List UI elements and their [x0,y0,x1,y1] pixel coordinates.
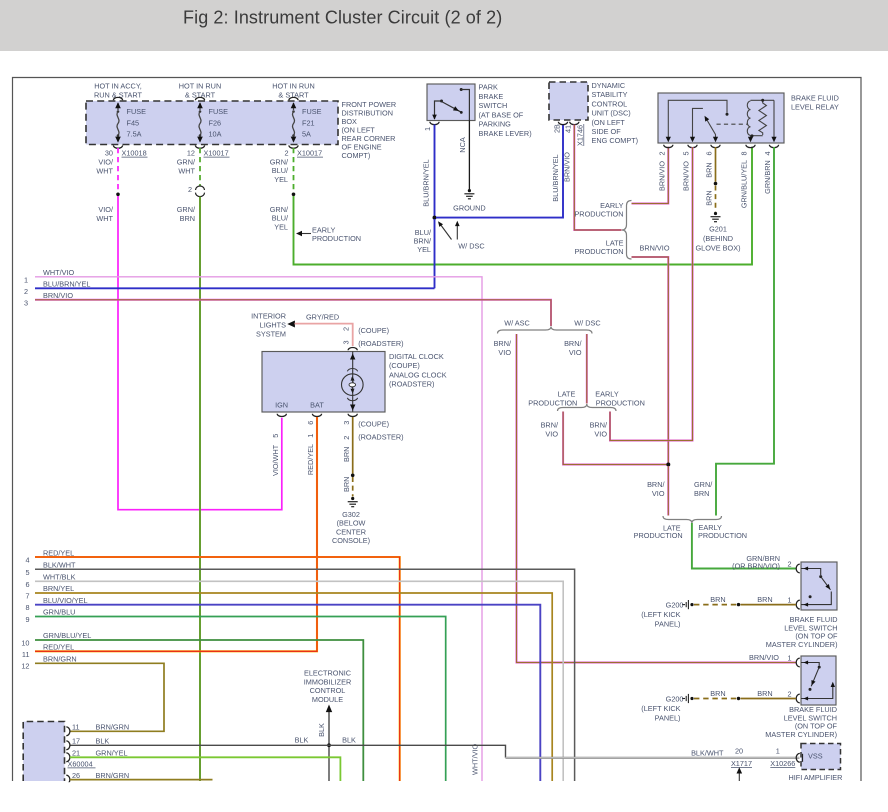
connector arc above fuse F26 [195,97,204,100]
wire BLK/WHT to VSS [506,757,800,759]
title bar [0,0,888,51]
svg-text:COMPT): COMPT) [342,151,371,160]
svg-text:BRN: BRN [710,689,725,698]
svg-text:Fig 2: Instrument Cluster Circ: Fig 2: Instrument Cluster Circuit (2 of … [183,8,502,28]
relay pin 8 internal lead [750,136,752,142]
svg-text:6: 6 [705,151,714,155]
svg-text:DYNAMIC: DYNAMIC [592,81,626,90]
svg-text:BRAKE LEVER): BRAKE LEVER) [479,129,532,138]
wire BLU/BRN/YEL junction to DSC pin 2B [436,125,563,218]
svg-text:GRN/: GRN/ [270,205,289,214]
svg-text:PRODUCTION: PRODUCTION [698,531,747,540]
svg-text:GRN/: GRN/ [177,158,196,167]
svg-text:WHT/BLK: WHT/BLK [43,573,76,582]
clock symbol [352,352,354,412]
relay pin 5 [688,145,697,148]
wire GRN/BLU/YEL from splice to relay pin 8 [294,147,753,265]
svg-text:BRN/: BRN/ [564,339,582,348]
svg-text:2: 2 [342,436,351,440]
svg-text:X10018: X10018 [122,149,147,158]
svg-text:GRN/BLU/YEL: GRN/BLU/YEL [740,160,749,208]
splice on BRN lower [737,697,740,700]
svg-text:5A: 5A [302,130,311,139]
svg-text:FUSE: FUSE [209,107,229,116]
wire GRN/YEL from cluster pin 21 [70,757,340,781]
svg-text:IMMOBILIZER: IMMOBILIZER [304,677,351,686]
wire GRN/BRN from relay pin 4 to lower brace [716,147,774,516]
splice node on GRN/BLU/YEL [292,193,296,197]
svg-text:EARLY: EARLY [595,389,619,398]
svg-text:(ROADSTER): (ROADSTER) [358,433,403,442]
svg-text:3: 3 [342,421,351,425]
relay actuating link dashed [717,123,749,125]
wire BRN/VIO early production to relay pin 5 [610,147,693,441]
late/early production brace mid [558,404,617,411]
svg-text:ENG COMPT): ENG COMPT) [592,136,639,145]
svg-text:3: 3 [342,340,351,344]
svg-text:PANEL): PANEL) [655,620,681,629]
wire VIO/WHT dashed from fuse F45 [117,148,119,192]
svg-text:BRN/YEL: BRN/YEL [43,584,74,593]
svg-text:VIO: VIO [498,348,511,357]
svg-text:2: 2 [188,185,192,194]
svg-text:12: 12 [187,149,195,158]
svg-text:PRODUCTION: PRODUCTION [574,247,623,256]
svg-text:GROUND: GROUND [453,203,485,212]
svg-text:X10017: X10017 [297,149,322,158]
wire RED/YEL from clock BAT to row 11 [35,417,317,651]
ground G200 left kick panel upper [682,604,685,606]
instrument cluster connector X60004 [23,722,64,782]
brake fluid level switch 2 [801,656,836,705]
svg-text:11: 11 [22,650,30,659]
svg-text:(COUPE): (COUPE) [358,326,389,335]
svg-text:4: 4 [25,556,29,565]
svg-text:BLU/BRN/YEL: BLU/BRN/YEL [422,159,431,206]
svg-text:& START: & START [278,91,309,100]
svg-text:G201: G201 [709,225,727,234]
svg-text:BRN: BRN [705,162,714,177]
svg-text:X10017: X10017 [204,149,229,158]
svg-text:3: 3 [24,298,28,307]
svg-text:HOT IN ACCY,: HOT IN ACCY, [94,82,142,91]
splice node on VIO/WHT [116,193,120,197]
svg-text:2: 2 [24,287,28,296]
svg-text:BAT: BAT [310,400,324,409]
pin 1 of switch 2 [796,658,800,667]
svg-text:10: 10 [21,639,29,648]
svg-text:8: 8 [25,603,29,612]
svg-text:BLU/: BLU/ [272,166,289,175]
wire BRN/VIO W/DSC branch [586,334,588,404]
relay coil suppression resistor [759,101,767,135]
svg-text:& START: & START [185,91,216,100]
svg-text:(ROADSTER): (ROADSTER) [389,380,434,389]
svg-text:GRN/BLU: GRN/BLU [43,608,75,617]
svg-text:G302: G302 [342,510,360,519]
svg-text:X1746: X1746 [575,125,584,146]
svg-text:BRAKE FLUID: BRAKE FLUID [791,94,839,103]
relay coil [747,101,750,135]
svg-text:7.5A: 7.5A [127,130,142,139]
svg-text:(LEFT KICK: (LEFT KICK [641,704,680,713]
svg-text:12: 12 [21,662,29,671]
svg-text:BRN/GRN: BRN/GRN [96,723,130,732]
svg-text:BLU/VIO/YEL: BLU/VIO/YEL [43,596,88,605]
svg-text:5: 5 [25,568,29,577]
pin 1 of switch 1 [796,600,800,609]
wire VIO/WHT from splice to clock IGN [118,196,282,510]
wire BRN dashed from G200 lower [694,698,737,700]
pin 2 of switch 1 [796,564,800,573]
svg-text:21: 21 [72,749,80,758]
cluster pin 21 [66,753,70,762]
wire BRN dashed from G200 upper [694,604,737,606]
connector arc above fuse F45 [113,97,122,100]
svg-text:(LEFT KICK: (LEFT KICK [641,610,680,619]
wire BRN from clock to splice [352,417,354,474]
svg-text:1: 1 [787,654,791,663]
ground below park brake switch [468,189,471,192]
svg-text:VSS: VSS [808,752,823,761]
svg-text:(AT BASE OF: (AT BASE OF [479,110,524,119]
svg-text:BLK: BLK [317,723,326,737]
svg-text:YEL: YEL [417,245,431,254]
svg-text:BRN: BRN [694,489,709,498]
wire BRN dashed to ground G302 [352,477,354,497]
relay coil top node [751,99,775,101]
wire BLK below splice [328,747,330,781]
wire GRN/BRN from connector to bottom [199,197,201,781]
early/late production brace at DSC [622,201,632,260]
svg-text:BRN/VIO: BRN/VIO [562,152,571,182]
pin 1 of VSS [796,753,800,762]
wire BRN/VIO junction to lower brace [667,466,669,516]
svg-text:2: 2 [342,327,351,331]
svg-text:(COUPE): (COUPE) [358,419,389,428]
svg-text:1: 1 [776,746,780,755]
svg-text:DIGITAL CLOCK: DIGITAL CLOCK [389,352,444,361]
svg-text:VIO: VIO [569,348,582,357]
relay armature from pin 6 [706,118,716,142]
svg-text:CENTER: CENTER [336,527,366,536]
svg-text:BRN/VIO: BRN/VIO [657,161,666,191]
splice on clock BRN wire [351,474,355,478]
svg-text:F45: F45 [127,119,140,128]
svg-text:WHT: WHT [96,214,113,223]
svg-text:PARK: PARK [479,83,498,92]
svg-text:STABILITY: STABILITY [592,90,628,99]
wire GRY/RED to interior lights [295,324,353,346]
wire BRN/VIO late production to junction [563,412,666,465]
svg-text:RUN & START: RUN & START [94,91,143,100]
svg-text:FUSE: FUSE [127,107,147,116]
svg-text:BRN/: BRN/ [541,421,559,430]
splice on BRN wire [714,182,718,186]
svg-text:6: 6 [306,421,315,425]
svg-text:BRN: BRN [180,214,195,223]
svg-text:IGN: IGN [275,400,288,409]
svg-text:VIO/: VIO/ [98,158,114,167]
svg-text:BRN/VIO: BRN/VIO [640,244,670,253]
wire NCA from park brake switch to ground [468,121,470,190]
svg-text:YEL: YEL [274,175,288,184]
cluster pin 11 [66,727,70,736]
svg-text:PRODUCTION: PRODUCTION [312,234,361,243]
svg-text:PRODUCTION: PRODUCTION [574,210,623,219]
svg-text:(OR BRN/VIO): (OR BRN/VIO) [732,562,780,571]
svg-text:CONSOLE): CONSOLE) [332,536,370,545]
svg-text:MASTER CYLINDER): MASTER CYLINDER) [766,640,838,649]
svg-text:HOT IN RUN: HOT IN RUN [272,82,314,91]
relay pin 2 [664,145,673,148]
svg-text:20: 20 [735,746,743,755]
svg-text:WHT/VIO: WHT/VIO [471,743,480,775]
early production pointer at GRN/BLU/YEL [299,233,311,235]
brake fluid level relay [658,93,784,143]
pin 30 connector X10018 below fuse F45 [113,145,122,148]
svg-text:PANEL): PANEL) [655,714,681,723]
relay fixed contact from pin 2 [668,100,727,141]
wire BRN dashed to ground G201 [715,186,717,212]
pin 12 connector X10017 below fuse F26 [195,145,204,148]
wire BLU/BRN/YEL junction down to row 2 [434,219,436,288]
wire BRN/VIO late production down to junction [632,257,669,463]
svg-text:LIGHTS: LIGHTS [260,321,286,330]
svg-text:30: 30 [105,149,113,158]
svg-text:NCA: NCA [458,137,467,153]
svg-text:G200: G200 [666,695,684,704]
svg-text:(BELOW: (BELOW [337,519,366,528]
svg-text:VIO/WHT: VIO/WHT [271,444,280,476]
svg-text:5: 5 [271,434,280,438]
svg-text:GRN/: GRN/ [694,480,713,489]
relay pin 8 [746,145,755,148]
svg-text:2B: 2B [552,124,561,133]
svg-text:BLK/WHT: BLK/WHT [43,561,76,570]
svg-text:PARKING: PARKING [479,120,512,129]
wire BRN/GRN from cluster pin 26 [70,779,213,781]
svg-text:(BEHIND: (BEHIND [703,234,733,243]
svg-text:BRN: BRN [342,477,351,492]
svg-text:GLOVE BOX): GLOVE BOX) [695,244,740,253]
fuse F45 7.5A [117,103,119,110]
svg-text:2: 2 [284,149,288,158]
digital clock / analog clock [262,352,385,413]
svg-text:INTERIOR: INTERIOR [251,312,286,321]
relay coil bottom node [751,135,763,137]
svg-text:RED/YEL: RED/YEL [306,444,315,475]
svg-text:RED/YEL: RED/YEL [43,643,74,652]
front power distribution box [86,101,338,145]
svg-text:BRN/VIO: BRN/VIO [749,653,779,662]
svg-text:WHT: WHT [96,167,113,176]
svg-text:1: 1 [306,434,315,438]
wire BRN/VIO early production to relay pin 2 [632,147,669,204]
fuse F21 5A [293,103,295,110]
svg-text:PRODUCTION: PRODUCTION [528,398,577,407]
svg-text:BLU/: BLU/ [272,214,289,223]
svg-text:YEL: YEL [274,222,288,231]
svg-text:VIO: VIO [652,489,665,498]
cluster pin 26 [66,775,70,784]
svg-text:SWITCH: SWITCH [479,101,508,110]
svg-text:(COUPE): (COUPE) [389,361,420,370]
svg-text:CONTROL: CONTROL [310,686,346,695]
svg-text:BRAKE: BRAKE [479,92,504,101]
svg-text:BRN: BRN [705,190,714,205]
relay pin 4 internal lead [773,100,775,141]
svg-text:GRN/: GRN/ [177,205,196,214]
svg-text:PRODUCTION: PRODUCTION [596,398,645,407]
svg-text:W/ DSC: W/ DSC [574,318,600,327]
svg-text:LEVEL RELAY: LEVEL RELAY [791,103,839,112]
pin 41 of DSC connector X1746 [570,122,579,125]
relay pin 4 [769,145,778,148]
ground G201 [714,212,717,215]
svg-text:VIO/: VIO/ [98,205,114,214]
park brake switch [427,84,475,121]
clock top pin 2/3 [348,347,357,350]
svg-text:BRN/VIO: BRN/VIO [43,291,73,300]
svg-text:(ON LEFT: (ON LEFT [592,118,626,127]
svg-text:CONTROL: CONTROL [592,99,628,108]
wire BLU/BRN/YEL from park brake switch [434,125,436,217]
svg-text:G200: G200 [666,601,684,610]
svg-text:GRN/BLU/YEL: GRN/BLU/YEL [43,631,91,640]
dynamic stability control unit [549,82,588,120]
svg-text:ELECTRONIC: ELECTRONIC [304,669,351,678]
ground G200 left kick panel lower [682,698,685,700]
svg-text:BRN/: BRN/ [494,339,512,348]
wire BLK from cluster pin 17 [70,745,506,758]
svg-text:BLK: BLK [96,737,110,746]
svg-text:HOT IN RUN: HOT IN RUN [179,82,221,91]
wire BRN/VIO W/ASC branch to brake fluid level switch 2 [517,334,797,663]
svg-text:5: 5 [682,151,691,155]
svg-text:GRN/YEL: GRN/YEL [96,749,128,758]
hifi amplifier pointer [738,771,740,781]
wire GRN/WHT dashed from fuse F26 [199,148,201,186]
fuse F26 10A [199,103,201,110]
pin 1 of park brake switch [430,122,439,125]
relay contact from pin 5 [693,108,703,141]
junction node W/DSC [433,216,437,220]
svg-text:BRN/: BRN/ [590,421,608,430]
svg-text:BLK: BLK [295,735,309,744]
wire BRN/VIO from DSC pin 41 to production brace [574,125,621,231]
junction node BRN/VIO [666,463,670,467]
svg-text:SYSTEM: SYSTEM [256,329,286,338]
svg-text:BLK: BLK [342,735,356,744]
svg-text:BRN: BRN [757,595,772,604]
splice on BRN upper [737,603,740,606]
svg-text:1: 1 [24,275,28,284]
svg-text:VIO: VIO [594,429,607,438]
wire GRN/BLU/YEL dashed from fuse F21 [293,148,295,192]
svg-text:X10266: X10266 [770,759,795,768]
svg-text:UNIT (DSC): UNIT (DSC) [592,109,631,118]
svg-text:9: 9 [25,615,29,624]
svg-text:2: 2 [657,151,666,155]
svg-text:GRY/RED: GRY/RED [306,312,339,321]
svg-text:LATE: LATE [558,389,576,398]
svg-text:W/ DSC: W/ DSC [458,241,484,250]
svg-text:WHT: WHT [178,167,195,176]
svg-text:1: 1 [423,127,432,131]
wire GRN/BRN to brake fluid level switch 1 pin 2 [692,523,796,569]
svg-text:PRODUCTION: PRODUCTION [634,531,683,540]
svg-text:2: 2 [787,690,791,699]
svg-text:HIFI AMPLIFIER: HIFI AMPLIFIER [789,773,843,782]
inline connector 2 on fuse F26 wire [196,186,205,190]
W/ASC W/DSC brace [498,327,593,334]
svg-text:1: 1 [787,596,791,605]
connector arc above fuse F21 [289,97,298,100]
svg-text:BRN/: BRN/ [647,480,665,489]
svg-text:BRN/GRN: BRN/GRN [96,771,130,780]
VSS [801,744,841,770]
wire BRN to switch 1 pin 1 [741,604,797,606]
svg-text:WHT/VIO: WHT/VIO [43,268,75,277]
cluster pin 17 [66,741,70,750]
svg-text:(ROADSTER): (ROADSTER) [358,339,403,348]
clock ground pin 3/2 [348,414,357,417]
svg-text:2: 2 [787,560,791,569]
svg-text:10A: 10A [209,130,222,139]
W/ DSC pointer arrows [439,223,452,240]
svg-text:VIO: VIO [545,429,558,438]
svg-text:26: 26 [72,771,80,780]
svg-text:GRN/: GRN/ [270,158,289,167]
svg-text:MODULE: MODULE [312,695,343,704]
svg-text:F21: F21 [302,119,315,128]
svg-text:FUSE: FUSE [302,107,322,116]
splice BLK at immobilizer [327,743,331,747]
svg-text:11: 11 [72,723,80,732]
svg-text:8: 8 [740,151,749,155]
svg-text:BRN: BRN [710,595,725,604]
pin 2B of DSC [558,122,567,125]
bottom crop mask [0,782,888,807]
svg-text:6: 6 [25,580,29,589]
svg-text:GRN/BRN: GRN/BRN [763,160,772,194]
svg-text:BRN/VIO: BRN/VIO [682,161,691,191]
svg-text:F26: F26 [209,119,222,128]
svg-text:BRN: BRN [757,689,772,698]
svg-text:BRN/GRN: BRN/GRN [43,655,77,664]
svg-text:BRN: BRN [342,447,351,462]
svg-text:17: 17 [72,737,80,746]
svg-text:MASTER CYLINDER): MASTER CYLINDER) [765,730,837,739]
relay pin 6 [711,145,720,148]
svg-text:X1717: X1717 [731,759,752,768]
wire BRN from relay pin 6 [715,147,717,182]
svg-text:41: 41 [564,125,573,133]
svg-text:SIDE OF: SIDE OF [592,127,622,136]
svg-text:ANALOG CLOCK: ANALOG CLOCK [389,370,447,379]
svg-text:4: 4 [763,151,772,155]
pin 2 of switch 2 [796,694,800,703]
wire BRN to switch 2 pin 2 [741,698,797,700]
pin 2 connector X10017 below fuse F21 [289,145,298,148]
svg-text:7: 7 [25,592,29,601]
svg-text:W/ ASC: W/ ASC [504,318,530,327]
svg-text:BLK/WHT: BLK/WHT [691,748,724,757]
svg-text:X60004: X60004 [68,759,93,768]
wire BLK to immobilizer [328,712,330,744]
late/early production brace lower [663,516,722,523]
